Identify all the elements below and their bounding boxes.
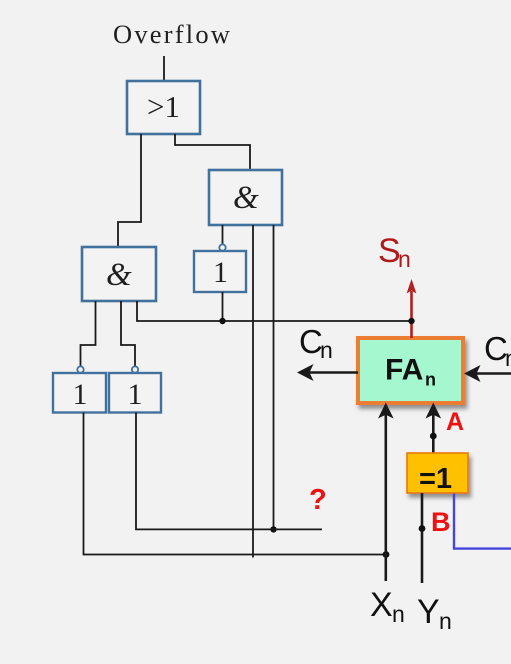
wire Cn-1 input arrow (right) [464,365,511,382]
wire U3 output a to inverter U4 bubble [222,225,224,244]
wire U6 output down and right open end (line1) [136,413,322,530]
inverter U5 (1) [53,373,106,413]
svg-text:&: & [106,257,132,293]
svg-text:n: n [398,246,411,272]
inverter U6 bubble [132,366,138,372]
junction dot A [430,433,437,440]
svg-text:n: n [439,608,452,634]
label Cn (left) [299,323,333,363]
and-gate U2 (left &) [82,247,156,301]
svg-text:n: n [425,370,436,390]
svg-text:Overflow: Overflow [113,19,232,49]
junction dot U4 output on horizontal wire [219,318,225,324]
wire blue mode line from U8 [454,494,511,549]
inverter U4 bubble [219,244,225,250]
svg-text:B: B [431,507,451,537]
wire Cn output arrow (left) [297,364,358,381]
label Sn [378,232,411,272]
svg-text:?: ? [309,484,327,516]
svg-text:n: n [392,601,405,627]
svg-text:FA: FA [385,354,423,387]
wire Yn input to U8 [421,493,424,583]
svg-text:X: X [370,586,393,624]
wire U5 output down and right to Xn node (line2) [84,413,387,555]
wire U1 right output to U3 input [175,134,250,170]
wire U2 output b to inverter U6 bubble [121,301,135,366]
svg-text:1: 1 [73,378,88,411]
junction dot line2 at Xn wire [383,551,390,558]
label Xn [370,586,405,627]
junction dot B [419,525,426,532]
wire A arrow from U8 to U7 [426,403,442,454]
inverter U5 bubble [77,366,83,372]
svg-text:A: A [446,408,464,436]
wire overflow to OR gate input [163,56,165,81]
wire Xn input arrow into U7 [378,403,394,582]
label Cn-1 (right, clipped) [484,330,511,371]
and-gate U3 (right &) [209,170,282,225]
inverter U4 (1) [194,251,246,292]
wire U3 output c vertical to node on line1 [273,225,275,529]
junction dot U3c on line1 [270,526,276,532]
or-gate U1 (>1) [127,81,200,134]
wire U2 output a to inverter U5 bubble [81,301,96,366]
svg-text:=1: =1 [419,463,452,495]
svg-text:1: 1 [128,378,143,411]
wire U1 left output to U2 input [118,134,141,247]
wire U4 output down to node [222,292,224,321]
wire U2 output c then horizontal to Sn node [137,301,412,321]
svg-text:n: n [320,337,333,363]
full adder U7 (FAn) [358,338,463,403]
label Yn [417,593,452,634]
xor-gate U8 (=1) [407,453,468,495]
svg-text:n: n [505,345,511,371]
junction dot on Sn wire [408,318,414,324]
wire U3 output b long vertical [252,225,254,558]
inverter U6 (1) [109,373,161,413]
svg-text:1: 1 [213,256,228,289]
svg-text:Y: Y [417,593,440,631]
svg-text:&: & [233,180,259,216]
wire Sn red arrow from U7 top [407,279,417,338]
svg-text:>1: >1 [147,89,180,124]
